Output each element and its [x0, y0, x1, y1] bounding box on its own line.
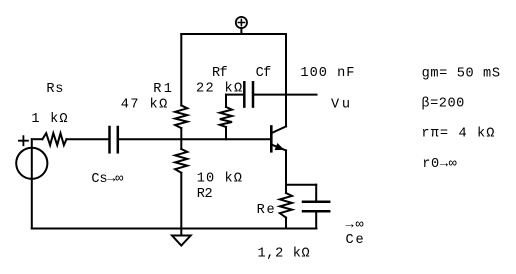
svg-text:47 kΩ: 47 kΩ [121, 97, 168, 112]
svg-text:β=200: β=200 [421, 97, 464, 112]
svg-text:R2: R2 [197, 187, 213, 202]
svg-text:1 kΩ: 1 kΩ [31, 112, 67, 127]
svg-text:Re: Re [257, 203, 275, 218]
svg-text:rπ= 4 kΩ: rπ= 4 kΩ [421, 127, 494, 142]
svg-text:r0→∞: r0→∞ [422, 157, 457, 172]
svg-text:Cf: Cf [256, 66, 272, 81]
svg-text:Ce: Ce [346, 233, 364, 248]
svg-text:1,2 kΩ: 1,2 kΩ [258, 247, 310, 262]
svg-text:100 nF: 100 nF [300, 66, 354, 81]
svg-text:10 kΩ: 10 kΩ [197, 172, 242, 187]
svg-text:gm= 50 mS: gm= 50 mS [422, 67, 500, 82]
svg-text:22 kΩ: 22 kΩ [196, 82, 242, 97]
svg-text:Rf: Rf [212, 66, 228, 81]
svg-text:Rs: Rs [46, 82, 63, 97]
svg-text:Cs→∞: Cs→∞ [91, 172, 123, 187]
svg-text:→∞: →∞ [346, 218, 364, 233]
